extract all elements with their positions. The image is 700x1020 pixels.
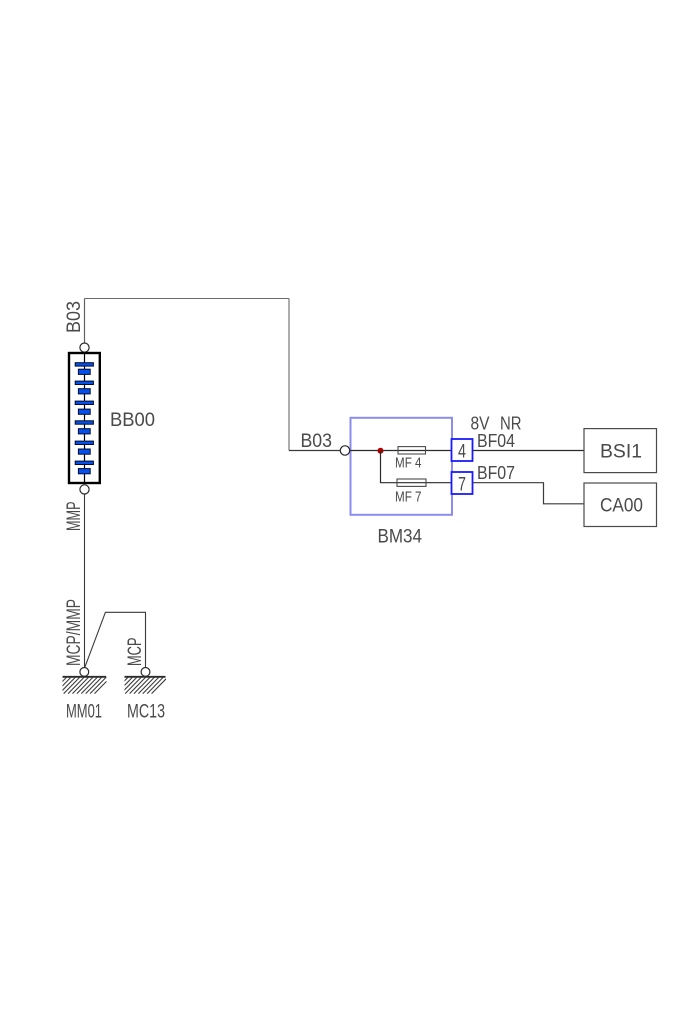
ground MC13 connector circle xyxy=(141,668,150,677)
svg-text:MCP/MMP: MCP/MMP xyxy=(64,599,85,666)
wire right vertical drop xyxy=(288,299,290,451)
wire battery negative down to MM01 xyxy=(84,494,86,667)
svg-text:4: 4 xyxy=(458,441,466,462)
svg-text:B03: B03 xyxy=(301,431,333,452)
wire pin 4 to BSI1 xyxy=(473,450,585,452)
wire battery top vertical xyxy=(84,299,86,344)
svg-text:MF 7: MF 7 xyxy=(395,488,422,505)
wire pin 7 to CA00 xyxy=(473,483,585,504)
ground MC13 symbol xyxy=(112,677,168,694)
ground MM01 symbol xyxy=(51,677,111,694)
svg-text:BF04: BF04 xyxy=(477,431,515,451)
svg-text:MMP: MMP xyxy=(64,502,85,532)
wire node B03 to pin 4 (through fuse MF4) xyxy=(350,450,452,452)
fuse box BM34 outline xyxy=(351,418,453,515)
battery BB00 bottom connector circle xyxy=(80,485,89,494)
svg-text:BB00: BB00 xyxy=(110,410,155,431)
wire into node B03 connector xyxy=(289,450,340,452)
svg-text:BSI1: BSI1 xyxy=(600,442,642,463)
svg-text:7: 7 xyxy=(458,474,466,495)
ground MM01 connector circle xyxy=(80,668,89,677)
pin box 4 xyxy=(452,439,473,461)
box BSI1 xyxy=(584,429,657,473)
svg-text:MCP: MCP xyxy=(125,638,146,667)
svg-text:BF07: BF07 xyxy=(477,463,515,483)
svg-text:MF 4: MF 4 xyxy=(395,455,422,472)
battery BB00 internal conductor line xyxy=(84,353,86,483)
fuse MF7 body xyxy=(397,479,426,486)
fuse MF4 body xyxy=(398,447,426,454)
junction dot (red) xyxy=(378,448,384,454)
battery BB00 outline xyxy=(69,353,100,483)
svg-text:BM34: BM34 xyxy=(378,526,423,547)
svg-text:MM01: MM01 xyxy=(66,702,102,723)
pin box 7 xyxy=(452,472,473,494)
wire junction down to fuse MF7 branch xyxy=(381,451,452,483)
box CA00 xyxy=(584,483,657,527)
battery BB00 top connector circle xyxy=(80,343,89,352)
battery cell plates (blue) xyxy=(75,363,93,474)
svg-text:B03: B03 xyxy=(64,301,85,333)
wire branch MM01 to MC13 (diagonal + horizontal + vertical) xyxy=(85,612,146,667)
svg-text:MC13: MC13 xyxy=(127,702,165,723)
wire top horizontal run xyxy=(85,298,290,300)
svg-text:CA00: CA00 xyxy=(600,496,643,517)
node B03 connector circle xyxy=(340,446,349,455)
